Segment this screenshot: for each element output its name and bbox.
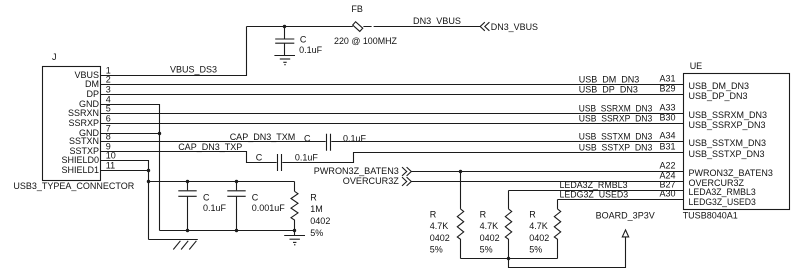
svg-text:BOARD_3P3V: BOARD_3P3V — [596, 211, 655, 221]
svg-text:USB_SSTXP_DN3: USB_SSTXP_DN3 — [689, 149, 765, 159]
node shield bus joins top rail — [147, 180, 150, 183]
svg-text:A34: A34 — [659, 131, 675, 141]
wire PWRON3Z_BATEN3 to UE A22 — [411, 161, 683, 174]
svg-text:5%: 5% — [480, 244, 493, 254]
node cap taps on top rail — [186, 180, 238, 183]
UE pin label OVERCUR3Z — [689, 178, 745, 188]
svg-text:USB_DP_DN3: USB_DP_DN3 — [689, 91, 748, 101]
svg-text:SHIELD0: SHIELD0 — [61, 155, 99, 165]
svg-text:USB_SSTXM_DN3: USB_SSTXM_DN3 — [579, 132, 653, 142]
svg-text:USB_SSRXM_DN3: USB_SSRXM_DN3 — [689, 110, 768, 120]
svg-text:SSRXN: SSRXN — [68, 108, 99, 118]
svg-text:0.1uF: 0.1uF — [295, 153, 319, 163]
UE pin label USB_DP_DN3 — [689, 91, 748, 101]
capacitor C 0.1uF series TXM — [304, 133, 367, 151]
svg-text:5%: 5% — [310, 228, 323, 238]
UE pin label USB_SSRXM_DN3 — [689, 110, 768, 120]
wire SHIELD1 pin11 to shield bus — [101, 169, 151, 172]
wire USB_DM_DN3 pin2 to UE A31 — [101, 74, 684, 85]
svg-text:0402: 0402 — [310, 216, 330, 226]
svg-text:0402: 0402 — [430, 233, 450, 243]
svg-text:220 @ 100MHZ: 220 @ 100MHZ — [334, 36, 397, 46]
pin 3 DP name and number — [86, 84, 110, 99]
svg-text:UE: UE — [690, 61, 703, 71]
svg-text:LEDA3Z_RMBL3: LEDA3Z_RMBL3 — [689, 187, 756, 197]
power symbol BOARD_3P3V — [596, 211, 655, 237]
ferrite bead FB 220 @ 100MHZ — [334, 4, 397, 46]
svg-text:VBUS_DS3: VBUS_DS3 — [170, 64, 217, 74]
svg-text:LEDA3Z_RMBL3: LEDA3Z_RMBL3 — [560, 180, 628, 190]
svg-text:DN3_VBUS: DN3_VBUS — [491, 22, 538, 32]
resistor R3 4.7K 0402 5% — [529, 200, 561, 259]
node junction at bypass cap tap — [283, 25, 286, 28]
svg-text:5%: 5% — [430, 244, 443, 254]
svg-text:CAP_DN3_TXM: CAP_DN3_TXM — [230, 132, 296, 142]
capacitor C 0.1uF series TXP — [256, 153, 319, 171]
pin 5 SSRXN name and number — [68, 103, 111, 118]
svg-text:11: 11 — [106, 160, 115, 170]
off-page connector PWRON3Z_BATEN3 — [314, 166, 412, 176]
svg-text:C: C — [256, 153, 263, 163]
wire USB_SSRXP_DN3 pin6 to UE B30 — [101, 113, 684, 124]
svg-text:DM: DM — [85, 79, 99, 89]
resistor R1 4.7K 0402 5% — [430, 172, 464, 259]
wire GND pin4 down bus — [101, 105, 160, 231]
wire USB_SSTXM_DN3 cap to UE A34 — [331, 131, 683, 142]
svg-text:LEDG3Z_USED3: LEDG3Z_USED3 — [689, 197, 756, 207]
svg-text:J: J — [52, 52, 57, 62]
pin 6 SSRXP name and number — [68, 113, 110, 128]
wire LEDA3Z_RMBL3 to UE B27 — [509, 180, 684, 191]
svg-text:R: R — [529, 210, 536, 220]
svg-text:8: 8 — [106, 131, 111, 141]
wire USB_SSTXP_DN3 cap jog up to UE B31 — [282, 142, 683, 163]
svg-text:5%: 5% — [529, 244, 542, 254]
capacitor C 0.001uF shield — [227, 182, 285, 231]
UE pin label USB_DM_DN3 — [689, 81, 750, 91]
svg-text:0.1uF: 0.1uF — [299, 45, 323, 55]
svg-text:B31: B31 — [659, 142, 675, 152]
resistor R2 4.7K 0402 5% — [480, 191, 512, 259]
wire LEDG3Z_USED3 to UE A30 — [558, 189, 684, 200]
ground under C near FB — [274, 56, 295, 65]
svg-text:A22: A22 — [659, 161, 675, 171]
svg-text:USB_SSRXM_DN3: USB_SSRXM_DN3 — [579, 104, 653, 114]
wire SHIELD0 pin10 to shield bus — [101, 161, 149, 240]
svg-text:C: C — [304, 133, 311, 143]
svg-text:3: 3 — [106, 84, 111, 94]
pin 1 VBUS name and number — [74, 65, 110, 80]
svg-text:C: C — [203, 193, 210, 203]
svg-text:SSTXN: SSTXN — [69, 136, 99, 146]
svg-text:USB_DM_DN3: USB_DM_DN3 — [579, 75, 640, 85]
svg-text:1M: 1M — [310, 204, 323, 214]
svg-text:USB_SSTXM_DN3: USB_SSTXM_DN3 — [689, 138, 767, 148]
capacitor C 0.1uF shield — [178, 182, 226, 231]
svg-text:0.1uF: 0.1uF — [203, 203, 227, 213]
off-page connector OVERCUR3Z — [343, 176, 412, 186]
UE pin label USB_SSTXM_DN3 — [689, 138, 767, 148]
svg-text:0402: 0402 — [480, 233, 500, 243]
pin 2 DM name and number — [85, 74, 111, 89]
chassis ground under shield bus — [149, 240, 198, 250]
svg-text:USB_SSTXP_DN3: USB_SSTXP_DN3 — [579, 143, 653, 153]
svg-text:DN3 VBUS: DN3 VBUS — [413, 16, 461, 26]
ground under 1M resistor — [284, 231, 305, 245]
svg-text:USB_SSRXP_DN3: USB_SSRXP_DN3 — [579, 114, 653, 124]
svg-text:TUSB8040A1: TUSB8040A1 — [683, 211, 738, 221]
pin 7 GND name and number — [79, 123, 111, 138]
capacitor C 0.1uF near FB — [275, 27, 322, 56]
svg-text:B30: B30 — [659, 113, 675, 123]
UE pin label LEDA3Z_RMBL3 — [689, 187, 756, 197]
wire GND pin7 to bus junction — [101, 132, 162, 135]
UE pin label PWRON3Z_BATEN3 — [689, 168, 773, 178]
svg-text:USB_SSRXP_DN3: USB_SSRXP_DN3 — [689, 120, 766, 130]
svg-text:FB: FB — [351, 4, 363, 14]
pin 8 SSTXN name and number — [69, 131, 111, 146]
connector J body — [13, 52, 134, 191]
wire USB_DP_DN3 pin3 to UE B29 — [101, 84, 684, 95]
UE pin label USB_SSTXP_DN3 — [689, 149, 765, 159]
svg-text:SHIELD1: SHIELD1 — [61, 165, 99, 175]
pin 10 SHIELD0 name and number — [61, 150, 115, 165]
off-page connector DN3_VBUS — [480, 22, 538, 32]
svg-text:CAP_DN3_TXP: CAP_DN3_TXP — [178, 142, 242, 152]
resistor R 1M 0402 5% — [291, 182, 330, 238]
svg-text:0.001uF: 0.001uF — [252, 203, 286, 213]
svg-text:0402: 0402 — [529, 233, 549, 243]
svg-text:A31: A31 — [659, 74, 675, 84]
UE pin label USB_SSRXP_DN3 — [689, 120, 766, 130]
wire shield top rail — [149, 181, 295, 183]
pin 9 SSTXP name and number — [69, 141, 110, 156]
pin 11 SHIELD1 name and number — [61, 160, 115, 175]
svg-text:USB_DM_DN3: USB_DM_DN3 — [689, 81, 750, 91]
svg-text:PWRON3Z_BATEN3: PWRON3Z_BATEN3 — [314, 166, 399, 176]
svg-text:OVERCUR3Z: OVERCUR3Z — [343, 176, 399, 186]
wire CAP_DN3_TXM pin8 to series cap — [101, 132, 326, 142]
wire resistor bottom rail — [461, 257, 558, 260]
pin 4 GND name and number — [79, 94, 111, 109]
wire VBUS_DS3 pin1 to riser — [101, 27, 247, 76]
svg-text:A30: A30 — [659, 189, 675, 199]
svg-text:C: C — [252, 193, 259, 203]
svg-text:USB_DP_DN3: USB_DP_DN3 — [579, 85, 638, 95]
svg-text:4.7K: 4.7K — [480, 221, 499, 231]
svg-text:B29: B29 — [659, 84, 675, 94]
svg-text:R: R — [430, 210, 437, 220]
IC UE TUSB8040A1 body — [683, 61, 790, 220]
svg-text:R: R — [480, 210, 487, 220]
svg-text:6: 6 — [106, 113, 111, 123]
svg-text:C: C — [300, 34, 307, 44]
UE pin label LEDG3Z_USED3 — [689, 197, 756, 207]
wire CAP_DN3_TXP pin9 jog down — [101, 142, 277, 163]
svg-text:DP: DP — [86, 89, 99, 99]
wire OVERCUR3Z to UE A24 — [411, 171, 683, 182]
wire top VBUS rail to ferrite bead — [247, 26, 353, 28]
svg-text:R: R — [310, 192, 317, 202]
svg-text:A33: A33 — [659, 103, 675, 113]
wire bottom GND rail — [160, 229, 297, 232]
wire USB_SSRXM_DN3 pin5 to UE A33 — [101, 103, 684, 114]
svg-text:4.7K: 4.7K — [430, 221, 449, 231]
wire FB to off-page DN3_VBUS — [363, 16, 480, 27]
wire rail to BOARD_3P3V — [509, 237, 626, 268]
svg-text:USB3_TYPEA_CONNECTOR: USB3_TYPEA_CONNECTOR — [13, 181, 134, 191]
svg-text:PWRON3Z_BATEN3: PWRON3Z_BATEN3 — [689, 168, 773, 178]
svg-text:LEDG3Z_USED3: LEDG3Z_USED3 — [560, 190, 629, 200]
svg-text:4.7K: 4.7K — [529, 221, 548, 231]
svg-text:SSRXP: SSRXP — [68, 118, 99, 128]
